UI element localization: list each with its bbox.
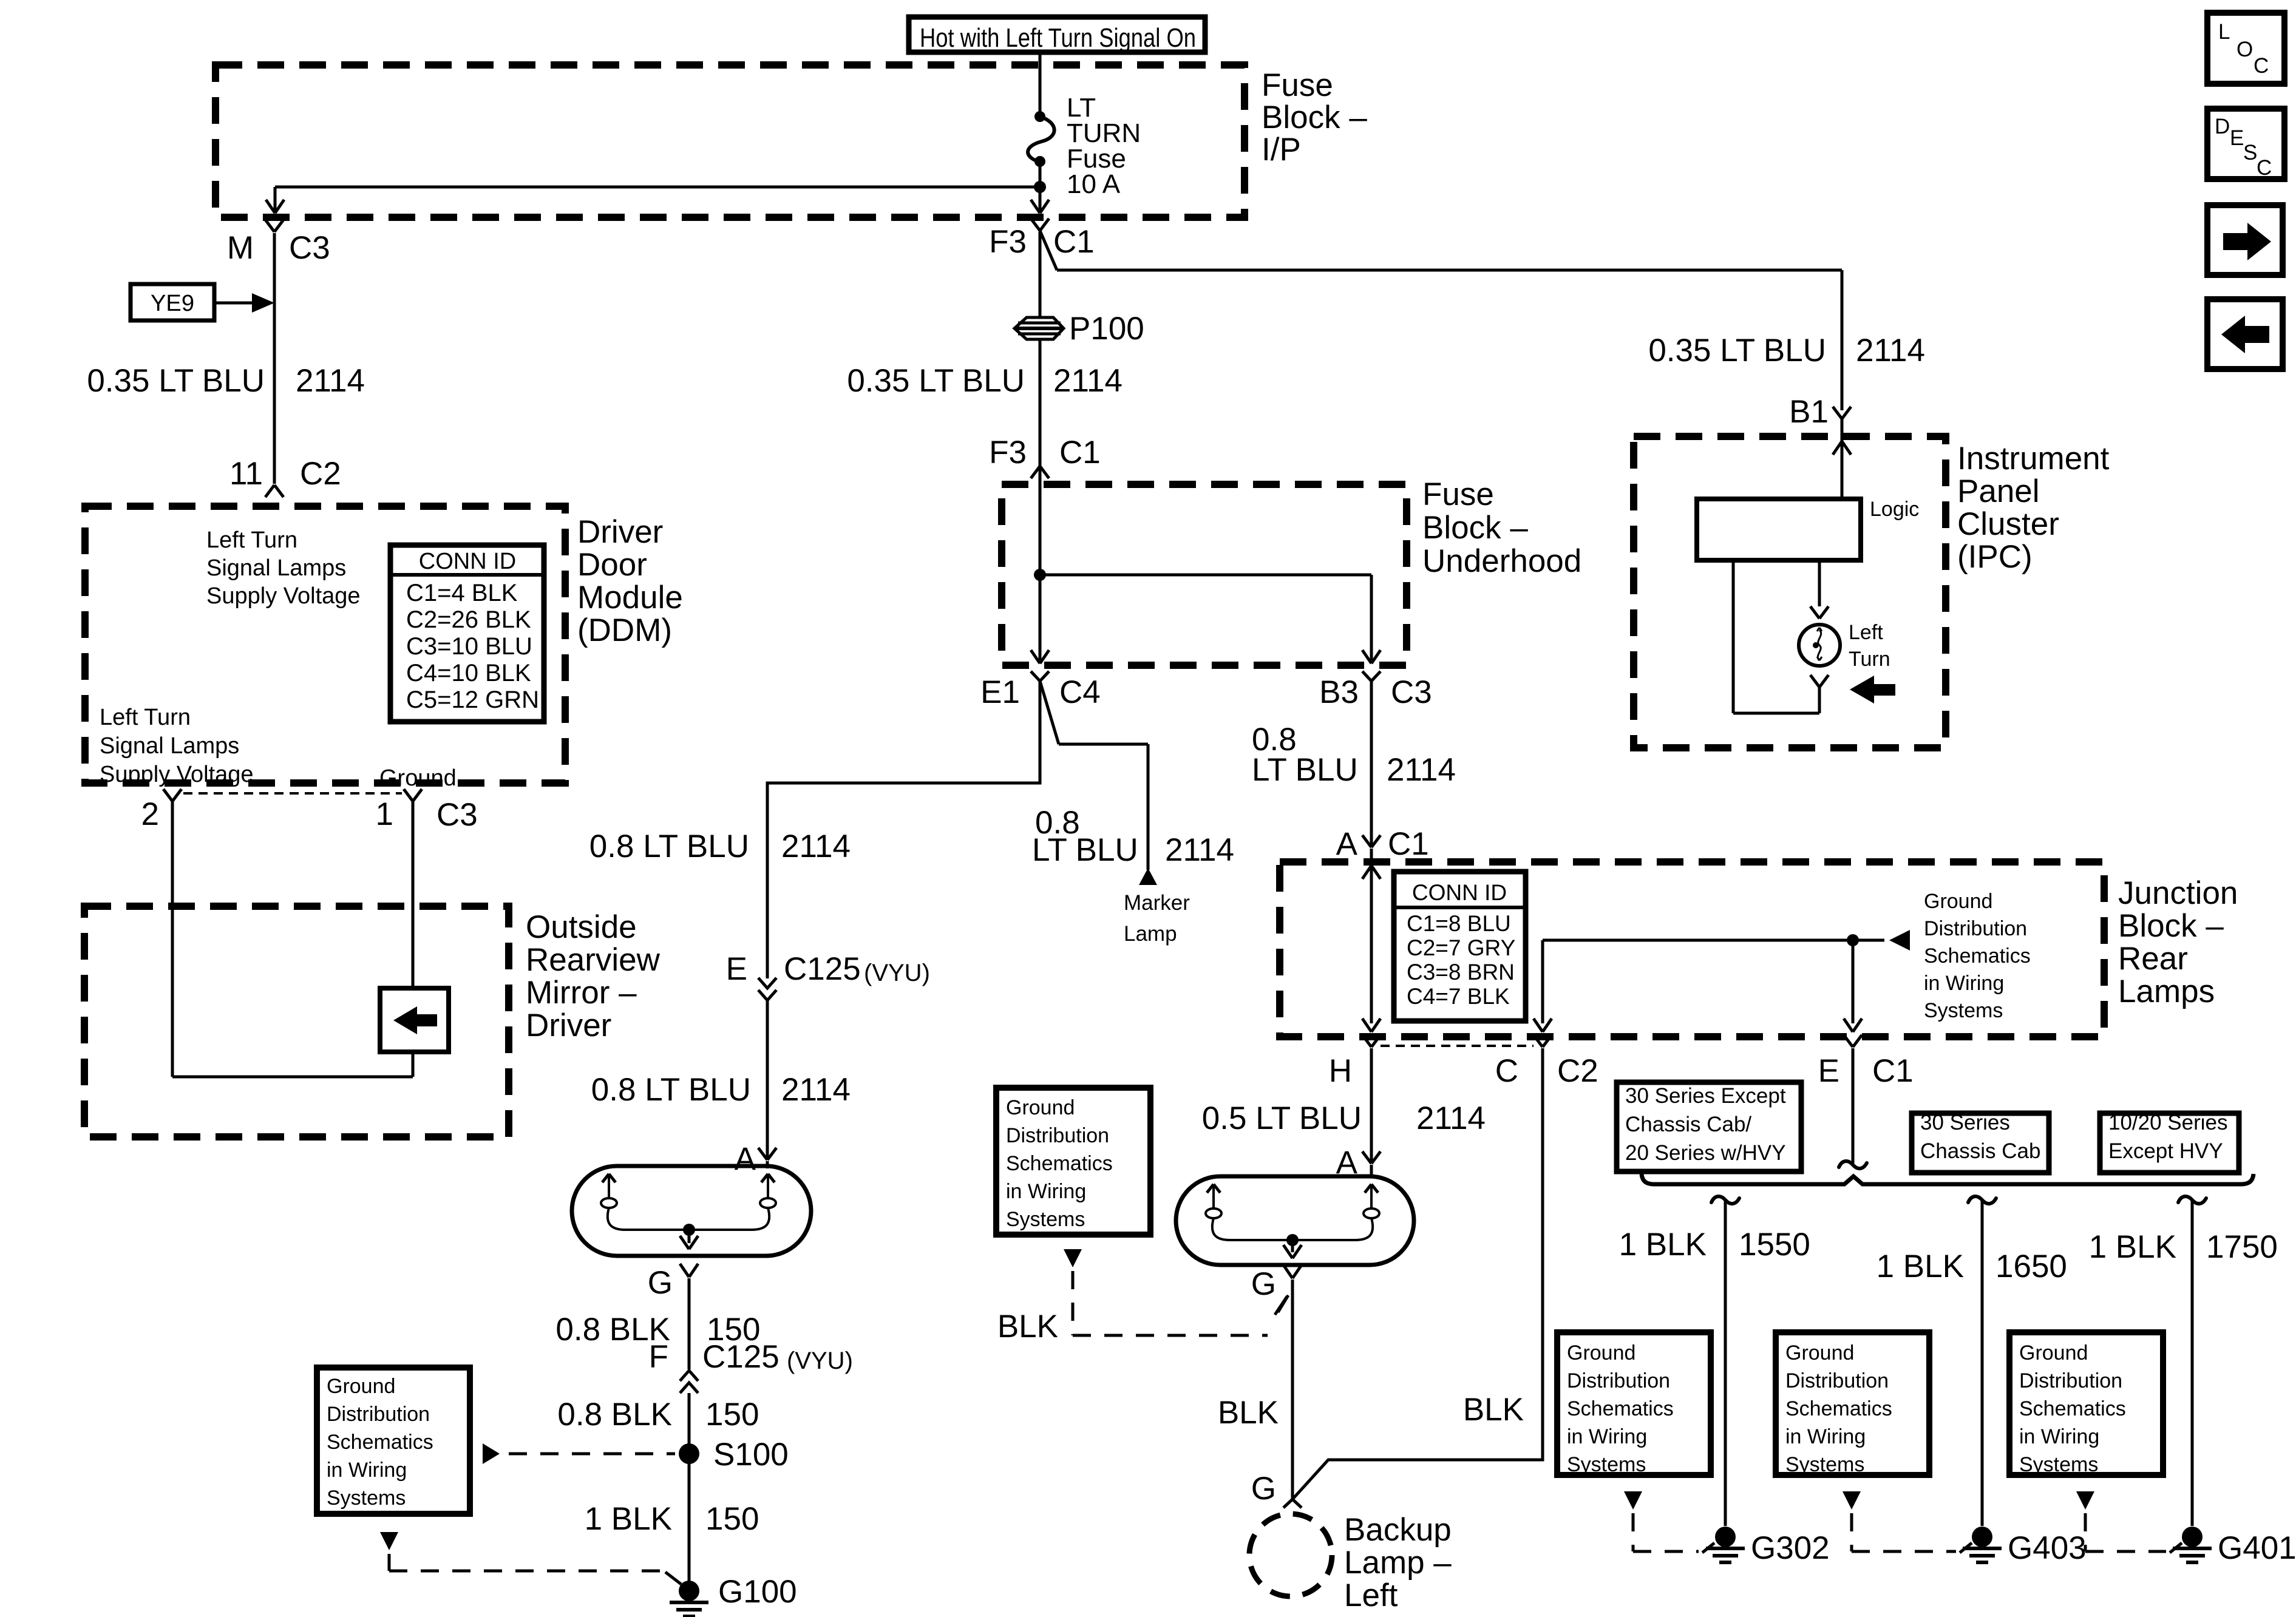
svg-text:0.35 LT BLU: 0.35 LT BLU bbox=[87, 363, 265, 399]
svg-text:2114: 2114 bbox=[1165, 832, 1234, 868]
svg-text:Block –: Block – bbox=[1422, 510, 1528, 546]
svg-text:Ground: Ground bbox=[327, 1375, 395, 1398]
svg-text:Distribution: Distribution bbox=[2019, 1369, 2122, 1392]
svg-text:E: E bbox=[726, 951, 747, 987]
svg-text:B3: B3 bbox=[1319, 674, 1359, 710]
svg-text:BLK: BLK bbox=[997, 1309, 1058, 1344]
svg-text:Ground: Ground bbox=[1567, 1341, 1635, 1364]
svg-text:150: 150 bbox=[705, 1501, 759, 1537]
svg-text:C125: C125 bbox=[784, 951, 861, 987]
svg-text:0.8 BLK: 0.8 BLK bbox=[557, 1397, 672, 1432]
svg-text:YE9: YE9 bbox=[151, 291, 194, 316]
svg-text:C4: C4 bbox=[1059, 674, 1101, 710]
svg-text:C1: C1 bbox=[1388, 826, 1429, 862]
svg-text:Ground: Ground bbox=[1006, 1096, 1075, 1119]
svg-text:2: 2 bbox=[141, 796, 159, 832]
svg-text:11: 11 bbox=[229, 456, 263, 492]
svg-text:Distribution: Distribution bbox=[1924, 917, 2027, 940]
svg-text:G100: G100 bbox=[718, 1574, 797, 1610]
svg-text:LT BLU: LT BLU bbox=[1032, 832, 1138, 868]
svg-text:in Wiring: in Wiring bbox=[1567, 1425, 1647, 1448]
svg-text:0.8 LT BLU: 0.8 LT BLU bbox=[591, 1072, 751, 1108]
svg-text:1 BLK: 1 BLK bbox=[585, 1501, 672, 1537]
svg-text:Signal Lamps: Signal Lamps bbox=[206, 555, 346, 581]
svg-text:Hot with Left Turn Signal On: Hot with Left Turn Signal On bbox=[920, 23, 1196, 53]
svg-text:G: G bbox=[648, 1265, 673, 1301]
svg-text:C1: C1 bbox=[1053, 224, 1095, 260]
svg-text:Distribution: Distribution bbox=[327, 1403, 430, 1426]
svg-text:C: C bbox=[2257, 156, 2272, 180]
svg-text:C: C bbox=[1495, 1053, 1518, 1089]
svg-text:F: F bbox=[649, 1339, 668, 1375]
svg-text:G: G bbox=[1251, 1266, 1276, 1302]
svg-text:2114: 2114 bbox=[1053, 363, 1123, 399]
svg-text:Systems: Systems bbox=[327, 1486, 406, 1510]
svg-text:C1: C1 bbox=[1872, 1053, 1914, 1089]
svg-text:C1=8 BLU: C1=8 BLU bbox=[1407, 911, 1511, 936]
svg-text:Systems: Systems bbox=[1006, 1208, 1085, 1231]
svg-text:Fuse: Fuse bbox=[1422, 476, 1494, 512]
svg-text:Ground: Ground bbox=[1785, 1341, 1854, 1364]
svg-text:1: 1 bbox=[376, 796, 393, 832]
svg-text:C5=12 GRN: C5=12 GRN bbox=[406, 686, 539, 713]
svg-text:Systems: Systems bbox=[1567, 1453, 1646, 1476]
svg-text:C3: C3 bbox=[436, 797, 478, 833]
svg-text:Driver: Driver bbox=[577, 514, 663, 550]
svg-text:Fuse: Fuse bbox=[1262, 67, 1333, 103]
svg-text:G302: G302 bbox=[1751, 1530, 1830, 1566]
svg-text:Left: Left bbox=[1344, 1578, 1398, 1613]
svg-text:C: C bbox=[2254, 54, 2269, 78]
svg-text:Schematics: Schematics bbox=[1924, 944, 2031, 968]
svg-text:C125: C125 bbox=[702, 1339, 779, 1375]
svg-text:Door: Door bbox=[577, 547, 647, 583]
svg-text:Distribution: Distribution bbox=[1567, 1369, 1670, 1392]
svg-text:0.35 LT BLU: 0.35 LT BLU bbox=[1648, 333, 1826, 368]
svg-text:Supply Voltage: Supply Voltage bbox=[206, 583, 361, 609]
svg-text:2114: 2114 bbox=[781, 829, 851, 864]
svg-text:Signal Lamps: Signal Lamps bbox=[100, 733, 239, 759]
svg-text:S100: S100 bbox=[713, 1437, 789, 1473]
svg-text:Schematics: Schematics bbox=[1785, 1397, 1892, 1420]
svg-text:1 BLK: 1 BLK bbox=[1619, 1227, 1707, 1263]
svg-text:E1: E1 bbox=[980, 674, 1020, 710]
svg-text:Left Turn: Left Turn bbox=[100, 705, 191, 730]
svg-text:A: A bbox=[1336, 826, 1358, 862]
svg-text:Systems: Systems bbox=[1785, 1453, 1864, 1476]
svg-text:Rear: Rear bbox=[2118, 941, 2188, 977]
svg-text:Outside: Outside bbox=[526, 909, 637, 945]
svg-text:2114: 2114 bbox=[1856, 333, 1925, 368]
svg-text:Block –: Block – bbox=[1262, 100, 1367, 135]
svg-text:M: M bbox=[227, 230, 254, 266]
svg-text:Schematics: Schematics bbox=[2019, 1397, 2126, 1420]
svg-text:10 A: 10 A bbox=[1067, 169, 1121, 199]
svg-text:Lamp: Lamp bbox=[1124, 922, 1177, 946]
svg-text:1 BLK: 1 BLK bbox=[2089, 1229, 2176, 1265]
svg-text:2114: 2114 bbox=[296, 363, 365, 399]
svg-text:F3: F3 bbox=[989, 435, 1027, 470]
svg-text:Instrument: Instrument bbox=[1957, 441, 2110, 476]
svg-text:Schematics: Schematics bbox=[1567, 1397, 1674, 1420]
svg-text:C3=8 BRN: C3=8 BRN bbox=[1407, 960, 1515, 985]
svg-text:Panel: Panel bbox=[1957, 473, 2040, 509]
svg-text:BLK: BLK bbox=[1218, 1395, 1279, 1431]
svg-text:in Wiring: in Wiring bbox=[1924, 972, 2004, 995]
svg-text:Left Turn: Left Turn bbox=[206, 527, 297, 553]
svg-text:B1: B1 bbox=[1789, 394, 1829, 430]
svg-text:1650: 1650 bbox=[1995, 1249, 2067, 1284]
svg-text:2114: 2114 bbox=[1416, 1100, 1486, 1136]
svg-text:(DDM): (DDM) bbox=[577, 612, 672, 648]
svg-text:Cluster: Cluster bbox=[1957, 506, 2059, 542]
svg-text:Systems: Systems bbox=[2019, 1453, 2098, 1476]
svg-text:Lamp –: Lamp – bbox=[1344, 1545, 1452, 1581]
svg-text:C3: C3 bbox=[1391, 674, 1432, 710]
svg-text:Rearview: Rearview bbox=[526, 942, 661, 978]
svg-text:I/P: I/P bbox=[1262, 132, 1301, 168]
svg-text:1750: 1750 bbox=[2206, 1229, 2278, 1265]
svg-text:0.8 LT BLU: 0.8 LT BLU bbox=[589, 829, 749, 864]
svg-text:Supply Voltage: Supply Voltage bbox=[100, 762, 254, 787]
svg-text:D: D bbox=[2215, 115, 2230, 138]
svg-text:G403: G403 bbox=[2008, 1530, 2087, 1566]
svg-text:(VYU): (VYU) bbox=[864, 960, 930, 986]
svg-text:Ground: Ground bbox=[2019, 1341, 2088, 1364]
svg-text:CONN ID: CONN ID bbox=[419, 549, 516, 574]
svg-text:E: E bbox=[1818, 1053, 1839, 1089]
svg-text:Block –: Block – bbox=[2118, 908, 2224, 944]
svg-text:Ground: Ground bbox=[379, 765, 457, 791]
svg-text:Distribution: Distribution bbox=[1006, 1124, 1109, 1147]
svg-text:Chassis Cab/: Chassis Cab/ bbox=[1625, 1113, 1751, 1136]
svg-text:2114: 2114 bbox=[781, 1072, 851, 1108]
svg-text:C2=26 BLK: C2=26 BLK bbox=[406, 606, 531, 633]
svg-text:A: A bbox=[735, 1141, 756, 1177]
svg-text:C2: C2 bbox=[300, 456, 341, 492]
svg-text:O: O bbox=[2237, 38, 2253, 61]
svg-text:H: H bbox=[1329, 1053, 1352, 1089]
svg-text:30 Series Except: 30 Series Except bbox=[1625, 1084, 1786, 1108]
svg-text:Driver: Driver bbox=[526, 1008, 611, 1043]
svg-text:in Wiring: in Wiring bbox=[1006, 1180, 1086, 1203]
svg-text:E: E bbox=[2230, 126, 2244, 150]
svg-text:Systems: Systems bbox=[1924, 999, 2003, 1022]
svg-text:Module: Module bbox=[577, 580, 683, 615]
svg-text:Schematics: Schematics bbox=[327, 1431, 433, 1454]
svg-text:C3=10 BLU: C3=10 BLU bbox=[406, 633, 532, 660]
svg-text:150: 150 bbox=[705, 1397, 759, 1432]
svg-text:Distribution: Distribution bbox=[1785, 1369, 1889, 1392]
svg-text:CONN ID: CONN ID bbox=[1412, 880, 1507, 905]
svg-text:in Wiring: in Wiring bbox=[2019, 1425, 2099, 1448]
svg-text:Left: Left bbox=[1849, 621, 1883, 644]
svg-text:20 Series w/HVY: 20 Series w/HVY bbox=[1625, 1141, 1786, 1165]
svg-text:C1=4 BLK: C1=4 BLK bbox=[406, 580, 518, 606]
svg-text:L: L bbox=[2218, 20, 2230, 44]
svg-text:in Wiring: in Wiring bbox=[1785, 1425, 1866, 1448]
svg-text:Turn: Turn bbox=[1849, 648, 1890, 671]
svg-text:30 Series: 30 Series bbox=[1920, 1111, 2010, 1134]
svg-text:C4=10 BLK: C4=10 BLK bbox=[406, 660, 531, 686]
svg-text:Logic: Logic bbox=[1870, 498, 1919, 521]
svg-text:Marker: Marker bbox=[1124, 891, 1190, 915]
svg-text:1 BLK: 1 BLK bbox=[1877, 1249, 1964, 1284]
svg-text:10/20 Series: 10/20 Series bbox=[2108, 1111, 2228, 1134]
svg-text:(VYU): (VYU) bbox=[787, 1347, 853, 1374]
svg-text:Underhood: Underhood bbox=[1422, 543, 1581, 579]
svg-text:1550: 1550 bbox=[1739, 1227, 1810, 1263]
svg-text:P100: P100 bbox=[1069, 311, 1144, 347]
svg-text:0.35 LT BLU: 0.35 LT BLU bbox=[847, 363, 1025, 399]
svg-text:Ground: Ground bbox=[1924, 890, 1992, 913]
svg-text:LT BLU: LT BLU bbox=[1252, 752, 1358, 788]
svg-text:Chassis Cab: Chassis Cab bbox=[1920, 1139, 2040, 1163]
svg-text:Lamps: Lamps bbox=[2118, 974, 2215, 1009]
svg-text:C2: C2 bbox=[1557, 1053, 1598, 1089]
svg-text:in Wiring: in Wiring bbox=[327, 1459, 407, 1482]
svg-text:Except HVY: Except HVY bbox=[2108, 1139, 2223, 1163]
svg-text:G: G bbox=[1251, 1471, 1276, 1507]
svg-text:Schematics: Schematics bbox=[1006, 1152, 1113, 1175]
svg-text:S: S bbox=[2243, 141, 2257, 164]
svg-text:C1: C1 bbox=[1059, 435, 1101, 470]
svg-text:Backup: Backup bbox=[1344, 1512, 1452, 1548]
svg-text:C2=7 GRY: C2=7 GRY bbox=[1407, 935, 1515, 960]
svg-text:Junction: Junction bbox=[2118, 875, 2238, 911]
svg-text:0.5 LT BLU: 0.5 LT BLU bbox=[1202, 1100, 1362, 1136]
svg-text:C4=7 BLK: C4=7 BLK bbox=[1407, 984, 1510, 1009]
svg-text:C3: C3 bbox=[289, 230, 330, 266]
svg-text:BLK: BLK bbox=[1463, 1392, 1524, 1428]
svg-text:2114: 2114 bbox=[1387, 752, 1456, 788]
svg-text:G401: G401 bbox=[2218, 1530, 2296, 1566]
svg-text:(IPC): (IPC) bbox=[1957, 539, 2033, 575]
svg-text:Mirror –: Mirror – bbox=[526, 975, 637, 1011]
svg-text:F3: F3 bbox=[989, 224, 1027, 260]
